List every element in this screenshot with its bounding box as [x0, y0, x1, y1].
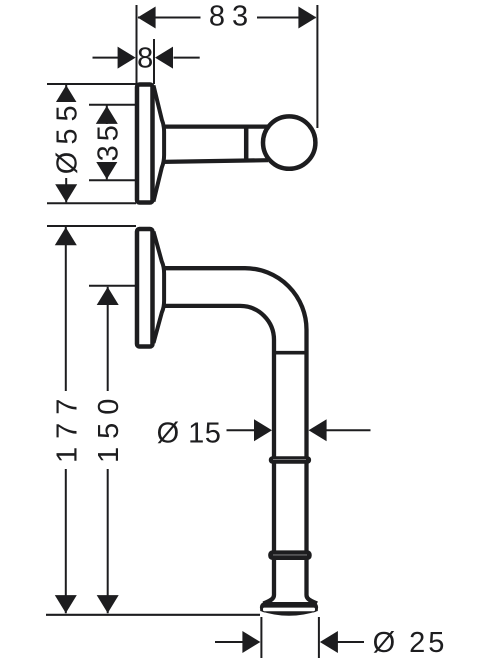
- dimension Ø55 line: [65, 85, 67, 202]
- arrow 35 top (points up): [96, 106, 118, 124]
- pipe joint line below elbow: [273, 351, 308, 355]
- arrow 8 right (points left): [155, 47, 173, 69]
- floor baseline: [46, 614, 260, 616]
- holder pipe outer edge with elbow: [163, 268, 317, 603]
- extension line left (Ø25): [260, 617, 262, 658]
- extension line right (8 dim): [153, 39, 155, 84]
- dimension Ø25 line: [215, 641, 364, 643]
- dimension 8 line: [93, 57, 200, 59]
- arrow Ø55 bottom (points down): [55, 184, 77, 202]
- dimension 83 line: [138, 17, 316, 19]
- pipe collar ring 1: [269, 456, 311, 464]
- label 8: [137, 42, 153, 74]
- arrow 8 left (points right): [118, 47, 136, 69]
- arrow Ø15 right (points left): [309, 419, 327, 441]
- extension line bottom (Ø55): [47, 202, 136, 204]
- escutcheon plate (hook): [137, 85, 153, 203]
- hook cone (trumpet face): [154, 86, 165, 202]
- extension line top (150 dim): [89, 285, 136, 287]
- arrow 177 bottom (points down): [55, 595, 77, 613]
- extension line top (Ø55): [47, 83, 136, 85]
- arrow 83 right: [298, 7, 316, 29]
- hook knob ball: [263, 116, 315, 168]
- arrow 35 bottom (points down): [96, 161, 118, 179]
- dimension Ø15 line: [227, 429, 371, 431]
- arrow 150 top (points up): [97, 287, 119, 305]
- extension line right (Ø25): [318, 617, 320, 658]
- arrow Ø15 left (points right): [254, 419, 272, 441]
- svg-text:83: 83: [209, 1, 255, 33]
- base flange: [260, 602, 318, 616]
- extension line right (83 dim, tangent to knob): [316, 5, 318, 128]
- svg-text:150: 150: [93, 391, 125, 463]
- extension line bottom (35): [89, 179, 136, 181]
- svg-text:Ø 15: Ø 15: [157, 418, 222, 450]
- dimension 177 line: [65, 227, 67, 613]
- label Ø25: [373, 627, 448, 659]
- label Ø55: [51, 98, 83, 178]
- arrow Ø55 top (points up): [55, 85, 77, 103]
- svg-text:Ø 25: Ø 25: [373, 627, 448, 659]
- label 150: [93, 391, 125, 469]
- label 83: [209, 1, 255, 33]
- arrow Ø25 left (points right): [242, 631, 260, 653]
- label 35: [92, 121, 124, 162]
- hook stem bottom edge: [163, 160, 268, 162]
- dimension 35 line: [106, 106, 108, 180]
- escutcheon plate (holder): [137, 229, 153, 347]
- arrow 150 bottom (points down): [97, 595, 119, 613]
- dimension 150 line: [107, 287, 109, 614]
- extension line top (177 dim): [47, 225, 136, 227]
- extension line left (83/8 dims): [136, 5, 138, 84]
- arrow Ø25 right (points left): [320, 631, 338, 653]
- svg-text:8: 8: [137, 42, 153, 74]
- arrow 83 left: [138, 7, 156, 29]
- svg-text:35: 35: [92, 121, 124, 161]
- extension line top (35): [89, 104, 136, 106]
- svg-text:177: 177: [51, 391, 83, 463]
- pipe collar ring 2: [268, 550, 312, 560]
- holder cone (trumpet face): [154, 232, 165, 344]
- hook stem collar line: [244, 125, 249, 163]
- label 177: [51, 391, 83, 469]
- holder pipe inner edge with elbow: [163, 306, 274, 604]
- hook stem top edge: [163, 124, 268, 128]
- label Ø15: [157, 418, 222, 450]
- svg-text:Ø55: Ø55: [51, 98, 83, 174]
- arrow 177 top (points up): [55, 227, 77, 245]
